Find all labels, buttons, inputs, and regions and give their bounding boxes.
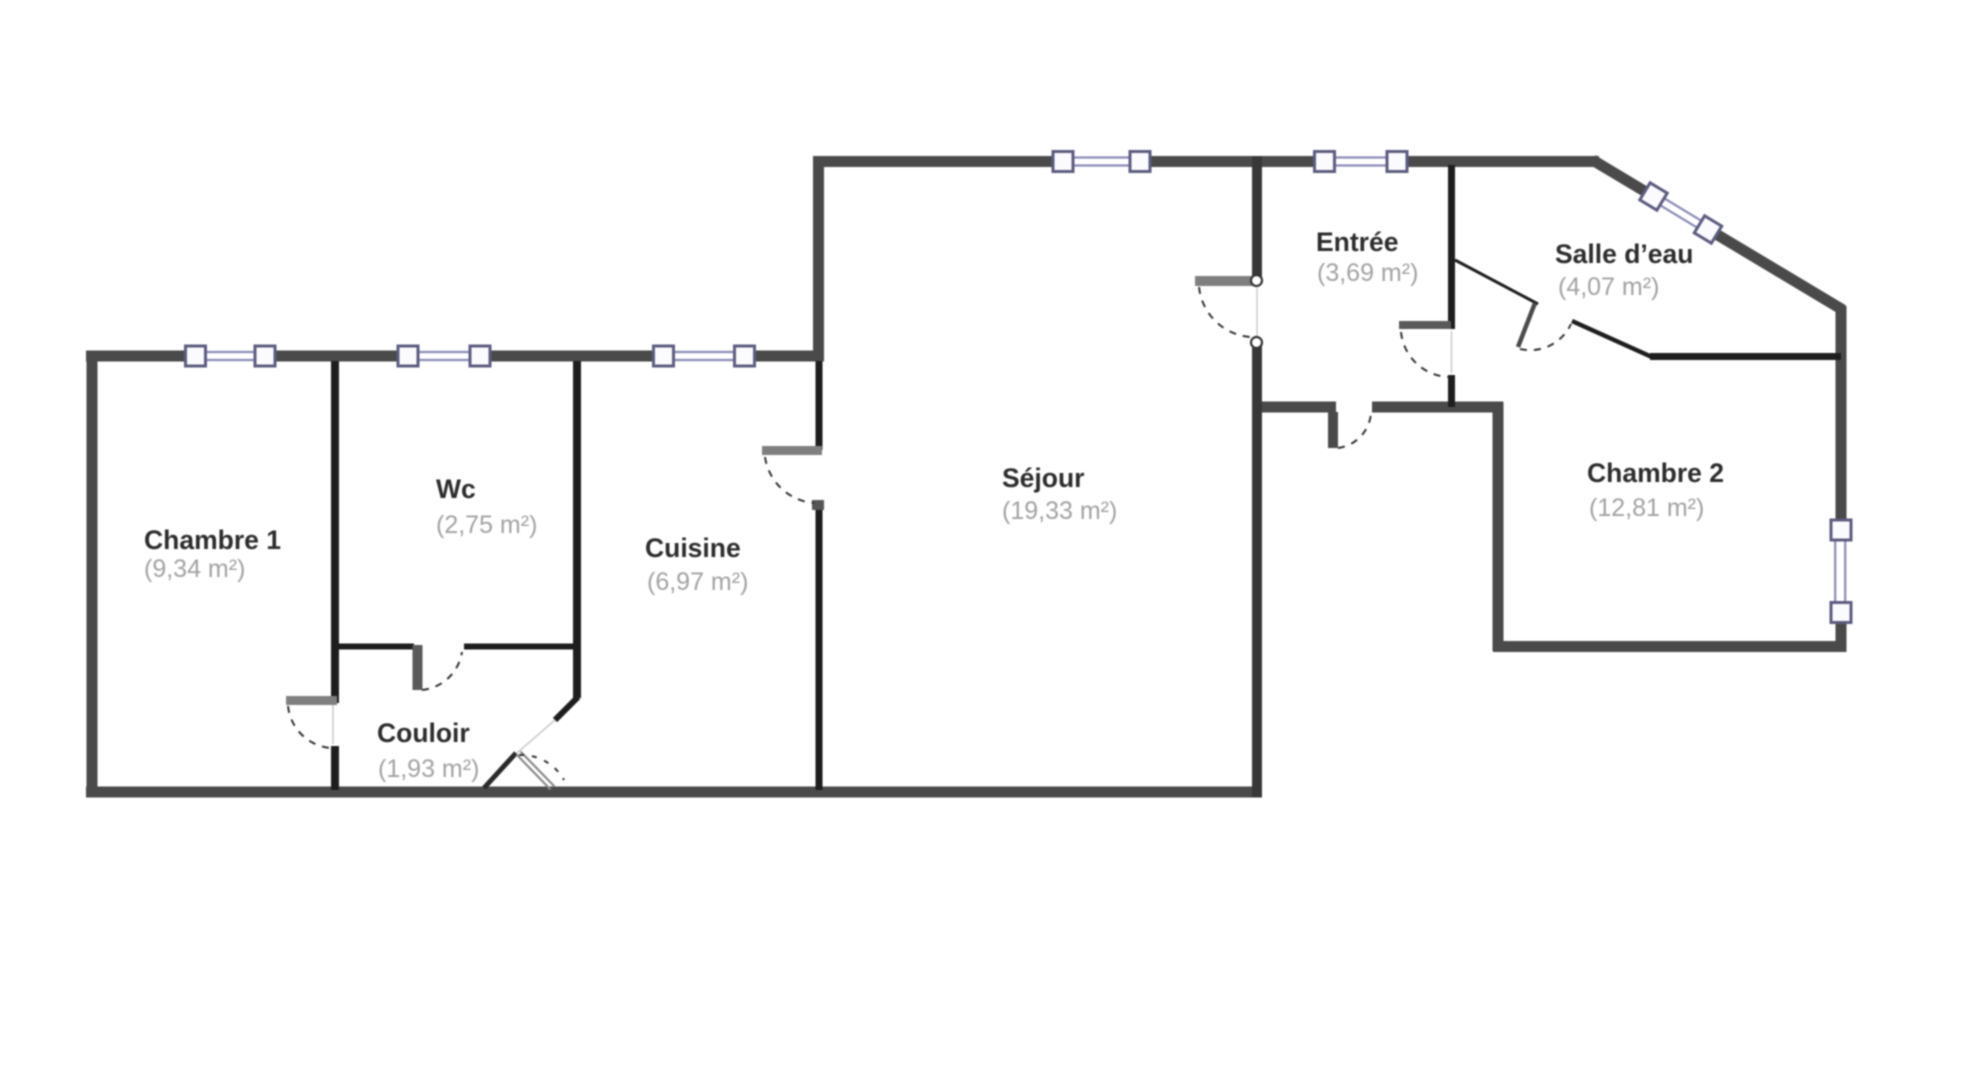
- svg-text:Chambre 1: Chambre 1: [144, 525, 281, 555]
- svg-text:(4,07 m²): (4,07 m²): [1558, 273, 1659, 301]
- svg-text:Couloir: Couloir: [377, 718, 470, 748]
- svg-text:(19,33 m²): (19,33 m²): [1002, 497, 1117, 525]
- svg-text:Cuisine: Cuisine: [645, 533, 741, 563]
- svg-text:Séjour: Séjour: [1002, 463, 1084, 493]
- svg-text:(3,69 m²): (3,69 m²): [1317, 259, 1418, 287]
- svg-text:(2,75 m²): (2,75 m²): [436, 511, 537, 539]
- svg-text:Wc: Wc: [436, 474, 476, 504]
- svg-text:Salle d’eau: Salle d’eau: [1555, 239, 1693, 269]
- svg-text:Entrée: Entrée: [1316, 227, 1398, 257]
- svg-text:(9,34 m²): (9,34 m²): [144, 555, 245, 583]
- svg-text:(6,97 m²): (6,97 m²): [647, 568, 748, 596]
- svg-text:Chambre 2: Chambre 2: [1587, 458, 1724, 488]
- svg-text:(1,93 m²): (1,93 m²): [378, 755, 479, 783]
- svg-text:(12,81 m²): (12,81 m²): [1589, 494, 1704, 522]
